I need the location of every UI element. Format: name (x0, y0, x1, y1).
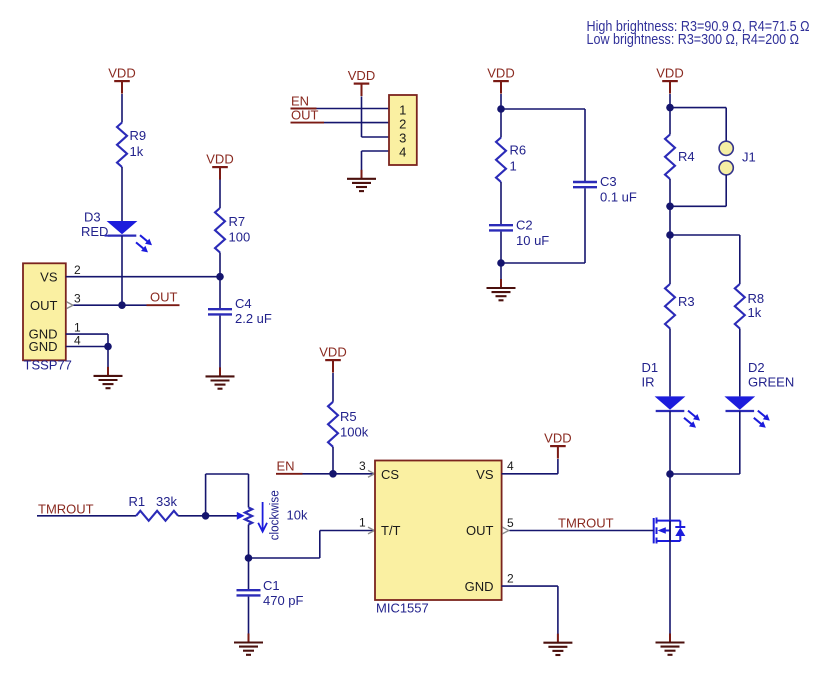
svg-text:TMROUT: TMROUT (558, 515, 614, 530)
svg-text:VDD: VDD (544, 431, 571, 446)
svg-text:C1: C1 (263, 578, 280, 593)
svg-text:100k: 100k (340, 425, 369, 440)
svg-text:1k: 1k (748, 305, 762, 320)
wire (361, 97, 363, 138)
svg-text:4: 4 (507, 459, 514, 473)
ground (connector) (361, 170, 363, 179)
junction (666, 104, 674, 112)
ground (C4) (219, 367, 221, 376)
IC U2 TSSP77 box (23, 263, 66, 360)
svg-text:RED: RED (81, 224, 108, 239)
junction (245, 554, 253, 562)
wire (669, 179, 671, 235)
svg-text:R6: R6 (510, 143, 527, 158)
svg-text:GND: GND (29, 339, 58, 354)
svg-text:1: 1 (399, 103, 406, 118)
svg-text:Low brightness: R3=300 Ω, R4=2: Low brightness: R3=300 Ω, R4=200 Ω (587, 32, 800, 48)
svg-text:EN: EN (277, 459, 295, 474)
svg-text:R7: R7 (229, 214, 246, 229)
wire C3 loop (501, 108, 585, 110)
wire (178, 515, 237, 517)
wire (500, 232, 502, 280)
svg-text:VDD: VDD (319, 345, 346, 360)
svg-text:VDD: VDD (108, 66, 135, 81)
wire (584, 188, 586, 263)
resistor R3 (665, 284, 675, 329)
svg-text:OUT: OUT (30, 298, 58, 313)
wire (669, 94, 671, 135)
wire R8 branch (670, 234, 740, 236)
IC U1 MIC1557 box (375, 461, 502, 601)
svg-text:CS: CS (381, 467, 399, 482)
svg-text:GREEN: GREEN (748, 375, 794, 390)
potentiometer loop (205, 474, 207, 516)
wire (500, 94, 502, 138)
wire (248, 558, 250, 590)
pin arrow CS (368, 470, 375, 477)
wire (219, 277, 221, 309)
svg-text:R3: R3 (678, 294, 695, 309)
potentiometer R2 10k (245, 508, 252, 525)
svg-text:D1: D1 (642, 360, 659, 375)
wire source to gnd (669, 541, 671, 634)
pin arrow T/T (368, 527, 375, 534)
wire (669, 329, 671, 397)
svg-text:MIC1557: MIC1557 (376, 601, 429, 616)
svg-text:R5: R5 (340, 409, 357, 424)
svg-text:GND: GND (465, 579, 494, 594)
resistor R1 (136, 511, 178, 521)
junction (118, 301, 126, 309)
svg-text:VS: VS (40, 270, 58, 285)
svg-text:D3: D3 (84, 210, 101, 225)
svg-text:10 uF: 10 uF (516, 233, 549, 248)
ground (C1) (248, 634, 250, 643)
ground (MOSFET) (669, 634, 671, 643)
svg-text:IR: IR (642, 375, 655, 390)
wire (121, 167, 123, 221)
junction (666, 470, 674, 478)
ground (MIC1557) (557, 634, 559, 643)
svg-text:C3: C3 (600, 174, 617, 189)
wire (362, 136, 390, 138)
wire (739, 329, 741, 397)
wire (219, 180, 221, 209)
resistor R9 (117, 123, 127, 168)
transistor Q1 MOSFET (654, 518, 686, 544)
wire J1 loop bottom (725, 175, 727, 206)
capacitor C4 (208, 308, 232, 310)
ground (C2) (500, 279, 502, 288)
svg-text:VDD: VDD (487, 66, 514, 81)
svg-text:2: 2 (74, 263, 81, 277)
junction (202, 512, 210, 520)
svg-text:4: 4 (74, 333, 81, 347)
wire (332, 447, 334, 474)
svg-text:VDD: VDD (206, 152, 233, 167)
wire (669, 235, 671, 284)
wiper arrow (237, 512, 245, 520)
junction (497, 259, 505, 267)
svg-text:3: 3 (74, 292, 81, 306)
svg-text:VS: VS (476, 467, 494, 482)
svg-text:R8: R8 (748, 291, 765, 306)
jumper J1 pads (719, 141, 733, 155)
svg-text:C4: C4 (235, 296, 252, 311)
svg-text:R4: R4 (678, 149, 695, 164)
wire (669, 411, 671, 521)
svg-text:OUT: OUT (466, 523, 494, 538)
wire (107, 347, 109, 368)
capacitor C2 (489, 224, 513, 226)
wire J1 loop top (670, 107, 726, 109)
wire (37, 515, 136, 517)
svg-text:EN: EN (291, 94, 309, 109)
clockwise arrow (262, 502, 264, 531)
svg-text:VDD: VDD (348, 68, 375, 83)
junction (497, 105, 505, 113)
svg-text:2.2 uF: 2.2 uF (235, 311, 272, 326)
wire (219, 316, 221, 368)
svg-text:D2: D2 (748, 360, 765, 375)
wire EN (317, 108, 390, 110)
resistor R5 (328, 402, 338, 447)
connector X1 box (389, 95, 417, 165)
capacitor C1 (237, 589, 261, 591)
svg-text:470 pF: 470 pF (263, 593, 304, 608)
svg-text:R1: R1 (129, 494, 146, 509)
wire OUT (324, 122, 389, 124)
wire (219, 253, 221, 277)
svg-text:0.1 uF: 0.1 uF (600, 190, 637, 205)
wire drain-source (669, 521, 671, 541)
wire (121, 94, 123, 123)
svg-text:C2: C2 (516, 218, 533, 233)
svg-text:2: 2 (507, 572, 514, 586)
wire (739, 411, 741, 474)
svg-text:4: 4 (399, 145, 406, 160)
svg-text:2: 2 (399, 117, 406, 132)
svg-text:3: 3 (359, 459, 366, 473)
svg-text:T/T: T/T (381, 523, 401, 538)
svg-text:OUT: OUT (150, 290, 178, 305)
ground (TSSP77) (107, 367, 109, 376)
wire (121, 236, 123, 306)
resistor R6 (496, 138, 506, 183)
svg-text:1: 1 (510, 159, 517, 174)
svg-text:33k: 33k (156, 494, 177, 509)
svg-text:TMROUT: TMROUT (38, 501, 94, 516)
LED D3 (107, 221, 138, 234)
svg-text:3: 3 (399, 131, 406, 146)
resistor R8 (735, 284, 745, 329)
svg-text:R9: R9 (130, 128, 147, 143)
capacitor C3 (573, 181, 597, 183)
svg-text:5: 5 (507, 516, 514, 530)
wire (248, 525, 250, 559)
wire (332, 373, 334, 402)
junction (216, 273, 224, 281)
wire (248, 597, 250, 634)
svg-text:OUT: OUT (291, 108, 319, 123)
junction (329, 470, 337, 478)
junction (666, 231, 674, 239)
resistor R7 (215, 208, 225, 253)
wire T/T (249, 557, 320, 559)
svg-text:1: 1 (359, 516, 366, 530)
svg-text:10k: 10k (287, 508, 308, 523)
wire (500, 182, 502, 225)
svg-text:clockwise: clockwise (267, 490, 282, 540)
svg-text:100: 100 (229, 230, 251, 245)
LED D1 (655, 396, 686, 409)
LED D2 (724, 396, 755, 409)
resistor R4 (665, 135, 675, 180)
junction (104, 343, 112, 351)
svg-text:J1: J1 (742, 150, 756, 165)
wire pin4 (362, 150, 390, 152)
wire EN to CS (303, 473, 376, 475)
svg-text:1k: 1k (130, 144, 144, 159)
svg-text:VDD: VDD (656, 66, 683, 81)
junction (666, 203, 674, 211)
svg-text:TSSP77: TSSP77 (24, 358, 72, 373)
